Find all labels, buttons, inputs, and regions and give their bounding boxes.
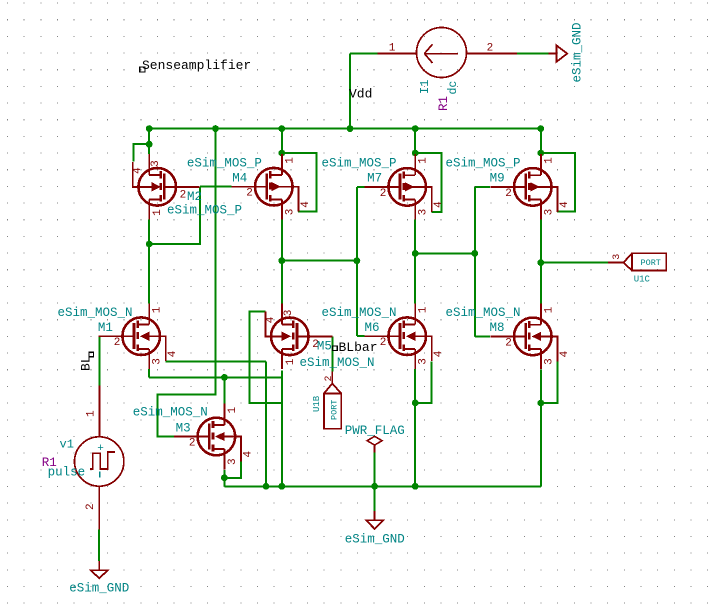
svg-text:4: 4 [265, 316, 277, 323]
svg-text:M4: M4 [232, 172, 247, 186]
svg-text:3: 3 [152, 358, 164, 365]
svg-text:3: 3 [283, 310, 295, 317]
svg-text:U1C: U1C [634, 274, 651, 284]
svg-text:dc: dc [447, 81, 460, 95]
svg-text:1: 1 [86, 410, 98, 417]
svg-text:eSim_MOS_N: eSim_MOS_N [322, 306, 397, 320]
svg-text:eSim_GND: eSim_GND [69, 582, 129, 596]
svg-text:4: 4 [433, 350, 445, 357]
svg-text:eSim_MOS_N: eSim_MOS_N [300, 356, 375, 370]
svg-text:BLbar: BLbar [339, 340, 378, 355]
svg-text:2: 2 [189, 438, 196, 450]
svg-text:4: 4 [300, 201, 312, 208]
svg-text:2: 2 [487, 43, 494, 55]
svg-text:M1: M1 [98, 321, 113, 335]
svg-text:1: 1 [284, 157, 296, 164]
svg-text:1: 1 [152, 209, 164, 216]
svg-text:4: 4 [433, 201, 445, 208]
svg-text:2: 2 [85, 503, 97, 510]
svg-text:BL: BL [79, 355, 94, 371]
svg-text:3: 3 [418, 209, 430, 216]
svg-text:3: 3 [543, 209, 555, 216]
svg-text:3: 3 [418, 358, 430, 365]
svg-text:1: 1 [227, 407, 239, 414]
svg-text:M9: M9 [490, 172, 505, 186]
svg-text:M5: M5 [317, 340, 332, 354]
svg-text:M7: M7 [367, 172, 382, 186]
svg-text:M3: M3 [176, 422, 191, 436]
svg-text:1: 1 [543, 306, 555, 313]
svg-text:R1: R1 [437, 96, 451, 111]
svg-text:2: 2 [114, 337, 121, 349]
svg-text:2: 2 [505, 337, 512, 349]
svg-text:4: 4 [242, 451, 254, 458]
svg-text:2: 2 [246, 188, 253, 200]
svg-text:M6: M6 [365, 321, 380, 335]
svg-text:Vdd: Vdd [349, 87, 372, 102]
svg-text:U1B: U1B [312, 395, 322, 412]
svg-text:2: 2 [380, 337, 387, 349]
svg-text:1: 1 [418, 157, 430, 164]
svg-text:2: 2 [505, 188, 512, 200]
svg-text:1: 1 [152, 306, 164, 313]
svg-text:1: 1 [418, 306, 430, 313]
svg-text:3: 3 [543, 358, 555, 365]
svg-text:2: 2 [180, 189, 187, 201]
svg-text:eSim_MOS_N: eSim_MOS_N [133, 405, 208, 419]
svg-text:v1: v1 [60, 438, 74, 452]
svg-text:3: 3 [612, 254, 623, 260]
svg-text:4: 4 [132, 167, 144, 174]
svg-text:PORT: PORT [330, 400, 340, 420]
svg-text:eSim_MOS_N: eSim_MOS_N [58, 306, 133, 320]
svg-text:1: 1 [285, 358, 297, 365]
svg-text:eSim_MOS_P: eSim_MOS_P [187, 156, 262, 170]
svg-text:4: 4 [559, 201, 571, 208]
svg-text:1: 1 [389, 43, 396, 55]
svg-text:I1: I1 [418, 80, 432, 94]
svg-text:3: 3 [284, 209, 296, 216]
svg-text:2: 2 [324, 375, 335, 381]
svg-text:eSim_GND: eSim_GND [571, 22, 585, 82]
svg-text:eSim_GND: eSim_GND [345, 533, 405, 547]
svg-text:3: 3 [150, 160, 162, 167]
svg-text:+: + [97, 443, 104, 455]
svg-text:eSim_MOS_P: eSim_MOS_P [322, 156, 397, 170]
svg-text:eSim_MOS_P: eSim_MOS_P [446, 156, 521, 170]
svg-text:3: 3 [227, 458, 239, 465]
svg-text:M2: M2 [187, 190, 202, 204]
svg-text:Senseamplifier: Senseamplifier [142, 58, 251, 73]
svg-text:pulse: pulse [48, 466, 86, 480]
svg-text:4: 4 [559, 350, 571, 357]
svg-text:4: 4 [167, 350, 179, 357]
svg-text:eSim_MOS_N: eSim_MOS_N [446, 306, 521, 320]
svg-text:1: 1 [543, 157, 555, 164]
svg-text:M8: M8 [490, 321, 505, 335]
svg-text:PORT: PORT [641, 258, 661, 268]
svg-text:2: 2 [380, 188, 387, 200]
svg-text:eSim_MOS_P: eSim_MOS_P [167, 204, 242, 218]
